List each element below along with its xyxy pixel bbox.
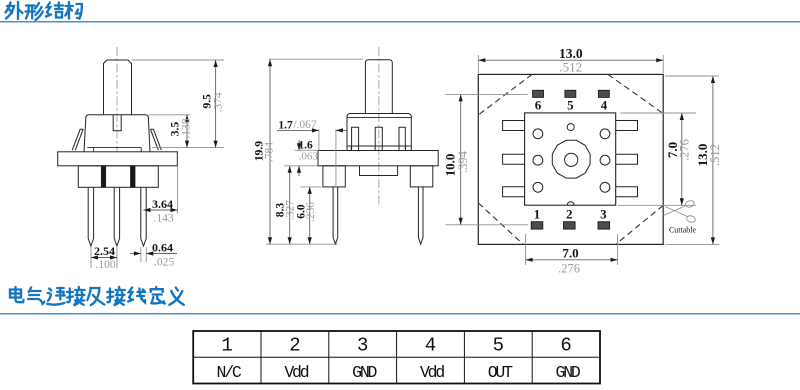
front view centerline — [116, 47, 118, 151]
top view left tab 2 — [503, 154, 525, 164]
top view left tab 3 — [503, 187, 525, 197]
side view flange — [318, 151, 438, 166]
dimension 0.64 arrows — [130, 253, 141, 255]
svg-text:.138: .138 — [180, 118, 192, 138]
dimension 9.5 extension line bottom — [152, 147, 224, 149]
top view pad pin 6 — [533, 90, 544, 97]
cuttable scissors icon — [664, 200, 697, 224]
top view small top hole — [567, 124, 574, 131]
dimension 1.7 leader — [277, 129, 319, 131]
top view screw hole 4 — [600, 155, 610, 165]
svg-text:3.64: 3.64 — [152, 197, 173, 211]
front view pin 3 — [141, 187, 146, 246]
svg-text:.276: .276 — [678, 139, 692, 161]
side view terminal 1 — [352, 127, 359, 150]
svg-text:N/C: N/C — [217, 363, 242, 382]
svg-text:4: 4 — [601, 98, 608, 113]
top view screw hole 2 — [600, 129, 610, 139]
dimension 1.6 extension lines — [295, 149, 319, 151]
front view flange — [58, 152, 178, 166]
svg-text:5: 5 — [567, 98, 574, 113]
side view terminal 3 — [399, 127, 405, 150]
side view body top face line — [347, 117, 411, 119]
svg-text:4: 4 — [425, 335, 436, 357]
front view plunger — [104, 60, 132, 115]
svg-text:5: 5 — [493, 335, 504, 357]
top view center boss polygon — [552, 140, 590, 178]
side view left block — [323, 166, 345, 187]
top view screw hole 5 — [533, 182, 543, 192]
svg-text:.025: .025 — [154, 257, 174, 269]
side view right block — [410, 166, 433, 187]
svg-text:Vdd: Vdd — [420, 363, 444, 382]
svg-text:GND: GND — [556, 363, 581, 382]
dimension 6.0 line — [309, 187, 311, 244]
dimension 19.9 bottom extension line — [266, 243, 338, 245]
svg-text:.512: .512 — [708, 144, 722, 166]
top view screw hole 3 — [533, 155, 543, 165]
svg-text:3: 3 — [357, 335, 368, 357]
dimension 9.5 line — [215, 60, 217, 148]
dimension 3.64 extension line — [177, 166, 179, 213]
side view center boss — [360, 166, 398, 176]
svg-text:2: 2 — [566, 207, 573, 222]
side view plunger — [365, 60, 392, 114]
svg-text:0.64: 0.64 — [152, 241, 173, 255]
svg-text:OUT: OUT — [488, 363, 513, 382]
top view screw hole 1 — [533, 129, 543, 139]
svg-text:6: 6 — [560, 335, 571, 357]
front view base block — [78, 166, 158, 188]
svg-text:.063: .063 — [299, 151, 319, 163]
dimension right 7.0 line — [681, 113, 683, 205]
svg-text:.512: .512 — [559, 60, 582, 75]
front view body — [84, 115, 150, 152]
top view screw hole 6 — [600, 182, 610, 192]
side view left pin — [333, 187, 338, 244]
svg-text:2: 2 — [289, 335, 300, 357]
top view cuttable dashed corner bottom-left — [478, 203, 523, 244]
top view pad pin 2 — [564, 222, 576, 229]
dimension 3.5 extension line top — [149, 114, 191, 116]
side view right pin — [418, 187, 423, 244]
dimension 1.6 arrows — [298, 140, 300, 150]
dimension left 10.0 extension lines — [445, 93, 528, 95]
dimension 3.64 line — [144, 209, 178, 211]
top view pad pin 4 — [598, 90, 609, 97]
dimension 3.5 line — [186, 115, 188, 148]
title heading 1 (outline structure) — [6, 2, 82, 20]
top view pad pin 5 — [565, 90, 576, 97]
side view top extension line — [269, 58, 363, 60]
side view centerline — [378, 47, 380, 207]
dimension 19.9 line — [269, 59, 271, 244]
dimension 2.54 extension lines — [90, 247, 92, 268]
svg-text:.276: .276 — [558, 262, 580, 276]
top view cuttable dashed corner bottom-right — [616, 205, 664, 244]
dimension left 10.0 line — [460, 94, 462, 224]
top view center block — [525, 113, 616, 205]
svg-text:1: 1 — [534, 207, 541, 222]
svg-text:.143: .143 — [153, 213, 173, 225]
title heading 2 (electrical connection definition) — [10, 287, 184, 305]
side view terminal 2 — [375, 127, 382, 150]
svg-text:Vdd: Vdd — [284, 363, 308, 382]
blue rule under heading 1 — [0, 21, 800, 23]
top view cuttable dashed corner top-left — [478, 74, 532, 115]
front view plunger slot — [113, 115, 121, 131]
top view pad pin 1 — [531, 222, 543, 229]
dimension top 13.0 extension lines — [477, 55, 479, 73]
top view left tab 1 — [503, 121, 525, 131]
front view left clip — [72, 129, 83, 150]
front view pin 2 — [114, 187, 119, 246]
dimension 8.3 line — [289, 166, 291, 244]
svg-text:7.0: 7.0 — [562, 246, 578, 261]
dimension top 13.0 line — [478, 59, 663, 61]
svg-text:/.067: /.067 — [293, 119, 317, 131]
dimension 6.0 extension line — [301, 186, 322, 188]
svg-text:6: 6 — [535, 98, 542, 113]
blue rule under heading 2 — [0, 313, 800, 315]
svg-text:.236: .236 — [305, 202, 317, 222]
dimension right 13.0 line — [712, 76, 714, 244]
top view outer square — [478, 74, 663, 244]
dimension bottom 7.0 extension lines — [525, 234, 527, 265]
side view body bottom line — [347, 145, 411, 147]
dimension 2.54 line — [91, 257, 117, 259]
dimension bottom 7.0 line — [526, 259, 618, 261]
dimension 0.64 extension lines — [140, 247, 142, 262]
front view pin 1 — [88, 187, 93, 246]
svg-text:3: 3 — [600, 207, 607, 222]
svg-text:.100: .100 — [95, 259, 115, 271]
top view small bottom notch — [567, 202, 574, 205]
svg-text:.784: .784 — [264, 142, 276, 162]
top view right tab 3 — [616, 187, 638, 197]
svg-text:GND: GND — [352, 363, 377, 382]
front view pin contact bar left — [101, 166, 105, 188]
dimension right 13.0 extension lines — [665, 75, 719, 77]
top view pad pin 3 — [598, 222, 610, 229]
front view right clip — [150, 129, 161, 150]
top view cuttable dashed corner top-right — [608, 74, 663, 113]
front view body step line — [87, 147, 141, 149]
top view right tab 2 — [616, 154, 638, 164]
pin table grid — [193, 331, 600, 384]
top view right tab 1 — [616, 121, 638, 131]
svg-text:.374: .374 — [212, 92, 224, 112]
front view plunger top extension line — [132, 59, 225, 61]
front view pin contact bar right — [131, 166, 136, 188]
top view center hole — [565, 153, 578, 166]
side view body — [347, 114, 411, 151]
svg-text:Cuttable: Cuttable — [669, 226, 697, 235]
svg-text:.394: .394 — [456, 150, 470, 173]
svg-text:1.7: 1.7 — [278, 120, 293, 132]
svg-text:1: 1 — [221, 335, 232, 357]
svg-text:2.54: 2.54 — [94, 244, 115, 258]
dimension 1.7 extension lines — [318, 129, 320, 150]
dimension right 7.0 extension lines — [621, 112, 697, 114]
